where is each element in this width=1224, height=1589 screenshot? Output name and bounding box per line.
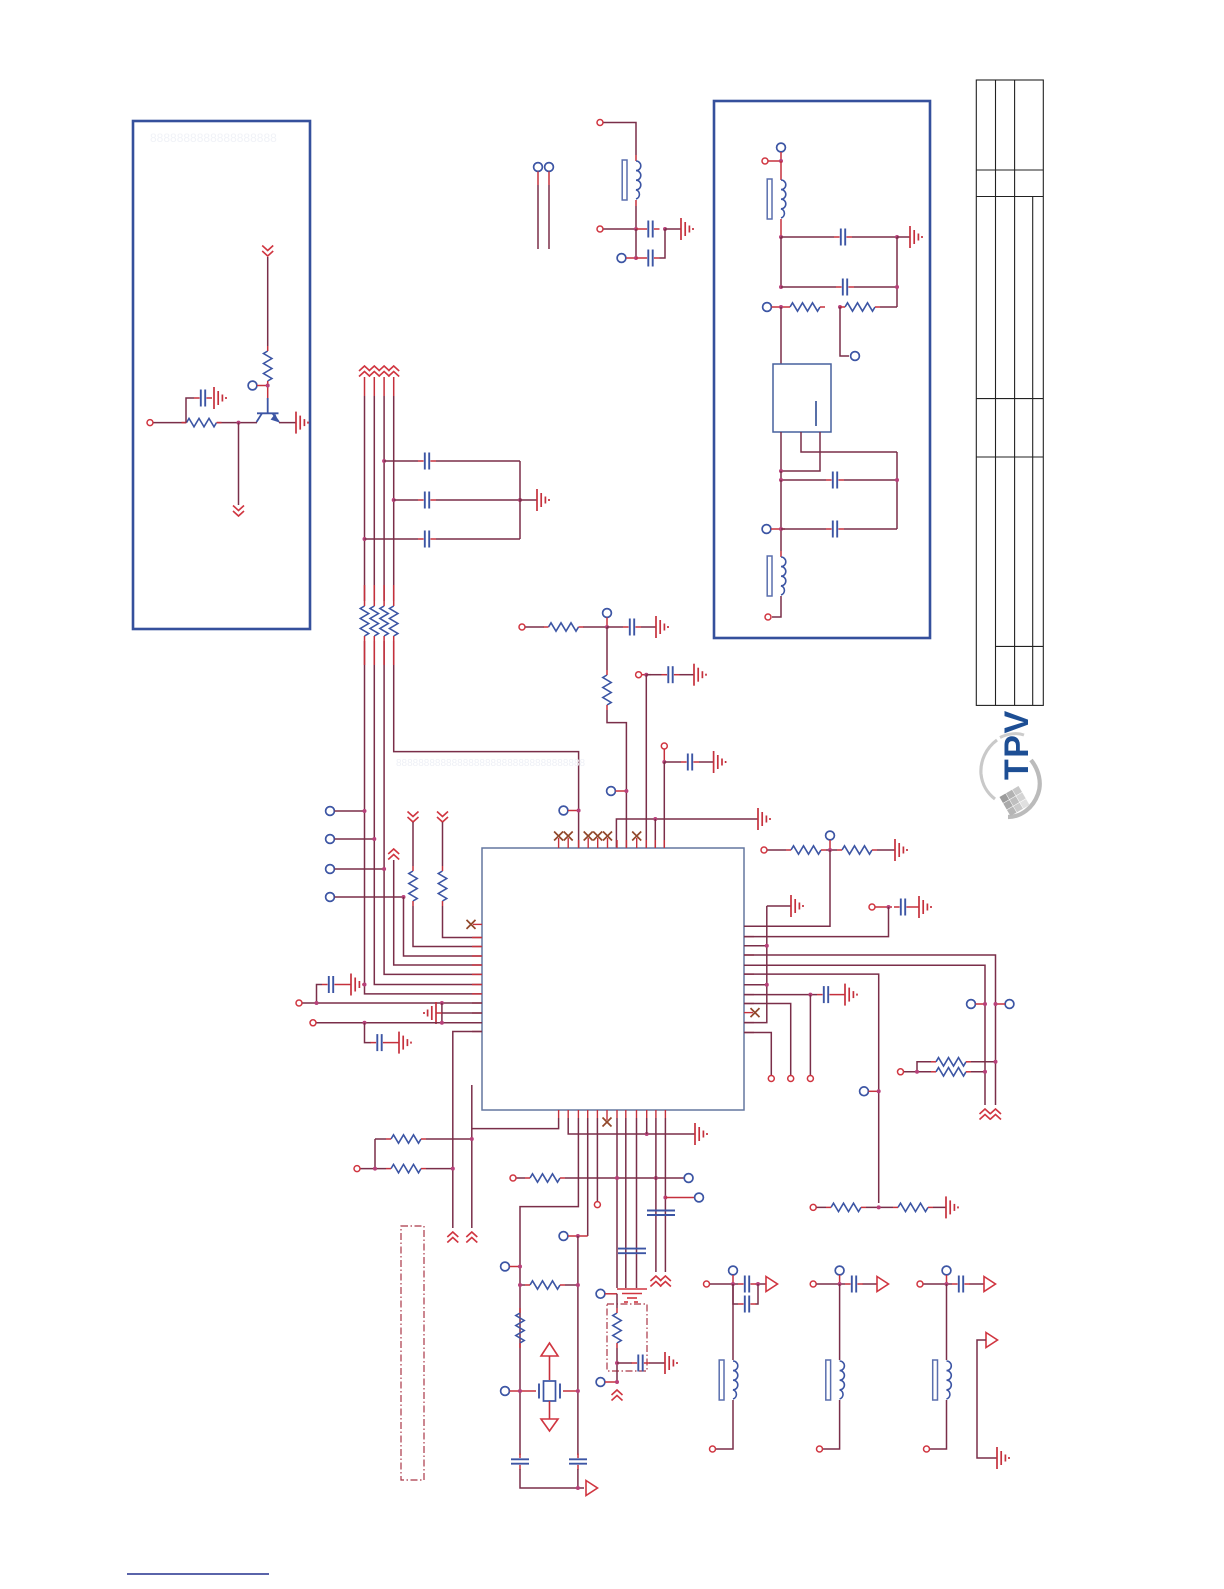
power chevron vA <box>447 1232 458 1243</box>
resistor r-top B <box>837 846 877 854</box>
wire r-cap row <box>876 906 893 908</box>
node dot v441 top <box>440 1001 444 1005</box>
transistor Q1 <box>257 398 280 422</box>
node dot base row <box>237 421 241 425</box>
node dot b2 a <box>779 235 783 239</box>
capacitor dec2 <box>681 754 699 771</box>
capacitor C (filter upper) <box>642 221 660 238</box>
wire port2 <box>335 838 375 840</box>
wire pin625 <box>625 1118 627 1288</box>
wire port4 <box>335 896 404 898</box>
resistor twin top <box>931 1058 971 1066</box>
node dot twin t <box>994 1060 998 1064</box>
node dot xtal leg r <box>576 1389 580 1393</box>
inductor blk3 <box>933 1360 952 1400</box>
resistor base <box>182 418 222 426</box>
bottom-left sheet border line <box>127 1573 269 1575</box>
capacitor C (box2 r2) <box>836 279 854 296</box>
port divider row <box>810 1204 816 1210</box>
wire dec2 gnd <box>699 761 714 763</box>
wire row H <box>744 994 817 996</box>
power chevron v665 <box>660 1276 671 1287</box>
ground right cap <box>919 896 931 918</box>
wire blk3 out <box>930 1400 947 1449</box>
node dot blk3 <box>945 1282 949 1286</box>
wire port to node <box>604 228 637 230</box>
shield box dash-dot left <box>401 1226 424 1480</box>
ground divider <box>946 1196 958 1218</box>
wire pin665 <box>664 1118 666 1272</box>
power chevron afc <box>612 1390 623 1401</box>
node dot blk1 b <box>756 1282 760 1286</box>
resistor R (box2 right) <box>840 303 880 311</box>
power chevron left res B <box>437 812 448 823</box>
node dot xtal out <box>576 1486 580 1490</box>
wire blk2 out <box>823 1400 840 1449</box>
ground bus caps <box>537 489 549 511</box>
wire bus red segments <box>365 585 394 665</box>
red pin stubs top <box>579 840 665 848</box>
inductor L (box2 top) <box>780 161 782 180</box>
wire left res B <box>443 822 483 938</box>
node dot bus1 cap3 <box>363 537 367 541</box>
node dot b2 gnd <box>895 235 899 239</box>
capacitor C (bus r1) <box>418 453 436 470</box>
node dot divider <box>877 1205 881 1209</box>
power chevron v655 <box>650 1276 661 1287</box>
ground dec1 <box>694 664 706 686</box>
wire port to node <box>769 160 782 162</box>
no-connect X top 2 <box>564 832 573 841</box>
wire node to ground <box>897 236 910 238</box>
wire input row <box>154 422 297 424</box>
node dot bus gnd <box>518 498 522 502</box>
node dot dec2 <box>662 760 666 764</box>
resistor divider B <box>893 1203 933 1211</box>
no-connect X top 5 <box>603 832 612 841</box>
wire VT tap <box>616 790 627 792</box>
wire res to rail <box>880 306 897 308</box>
node dot bus tie1 <box>765 944 769 948</box>
capacitor dec1 <box>662 666 680 683</box>
port line4 <box>326 893 335 902</box>
wire filter to cap <box>636 228 642 230</box>
port osc row <box>510 1175 516 1181</box>
inductor blk2 <box>826 1360 845 1400</box>
wire bus4 <box>393 377 395 396</box>
no-connect X bottom <box>603 1118 612 1127</box>
resistor left B <box>438 866 446 906</box>
wire to ground <box>665 228 681 230</box>
signal triangle blk3 <box>984 1277 996 1292</box>
port dec1 <box>636 672 642 678</box>
terminal circle I <box>788 1076 794 1082</box>
wire port earth <box>605 1293 617 1295</box>
wire dec1 <box>642 674 651 676</box>
port box2 top <box>777 143 786 152</box>
wire cap branch <box>317 985 323 1004</box>
node dot pin665 tap <box>663 1196 667 1200</box>
IC left no-connect stub <box>473 923 482 925</box>
svg-text:8888888888888888888: 8888888888888888888 <box>150 131 277 145</box>
wire F tap <box>869 1090 879 1092</box>
signal triangle blk1 <box>766 1277 778 1292</box>
port bus4 tap <box>559 806 568 815</box>
wire dec1 drop <box>645 675 647 848</box>
crystal Y1 <box>520 1381 578 1401</box>
wire rail into IC2 <box>780 307 782 364</box>
no-connect X top 4 <box>593 832 602 841</box>
node dot afc2 <box>615 1380 619 1384</box>
no-connect X left <box>467 920 476 929</box>
wire bus pin ties <box>744 946 767 985</box>
capacitor right <box>894 899 912 916</box>
node dot in2 <box>363 1021 367 1025</box>
power chevron VD pin <box>388 849 399 860</box>
node dot bus3 cap1 <box>382 459 386 463</box>
port blk2 in <box>810 1281 816 1287</box>
capacitor VT <box>623 619 641 636</box>
wire H drop <box>809 995 811 1075</box>
port right pair A <box>967 1000 976 1009</box>
signal triangle xtal out <box>586 1481 598 1496</box>
frame box upper-right block <box>714 101 930 638</box>
title block table <box>976 80 1043 705</box>
ground r-top <box>895 839 907 861</box>
node dot xtal l1 <box>518 1265 522 1269</box>
node dot res row r <box>576 1283 580 1287</box>
wire left row last <box>453 1032 482 1229</box>
resistor divider A <box>826 1203 866 1211</box>
node dot xtal tap <box>576 1234 580 1238</box>
node dot VT tap <box>624 789 628 793</box>
wire H gnd <box>835 994 845 996</box>
port r-top node <box>826 831 835 840</box>
ground right bus <box>791 895 803 917</box>
capacitor C (box2 r3) <box>826 472 844 489</box>
node dot bracket right <box>451 1167 455 1171</box>
port pin665 tap <box>695 1193 704 1202</box>
wire VT row <box>526 626 608 628</box>
wire osc row <box>517 1177 685 1179</box>
wire cap branch 2 <box>365 1023 372 1043</box>
resistor left A <box>409 866 417 906</box>
wire left res A <box>413 822 482 947</box>
no-connect X top 1 <box>554 832 563 841</box>
wire row F <box>744 974 879 1203</box>
node dot F tap <box>877 1089 881 1093</box>
node dot b2 h <box>895 478 899 482</box>
node dot gnd row <box>653 817 657 821</box>
earth ground symbol <box>617 1289 647 1302</box>
wire port to node2 <box>626 257 636 259</box>
ground filter <box>681 218 693 240</box>
port VT node <box>603 609 612 618</box>
port blk1 out <box>710 1446 716 1452</box>
TPV logo <box>981 709 1040 817</box>
inductor L (box2 bottom) <box>780 551 782 557</box>
wire bus2 <box>373 377 375 396</box>
capacitor left dec <box>322 976 340 993</box>
wire r-cap drop to pin <box>744 907 889 937</box>
capacitor blk3 <box>952 1276 970 1293</box>
node dot H <box>808 993 812 997</box>
terminal circle H <box>807 1076 813 1082</box>
wire cap2 to gnd <box>389 1042 400 1044</box>
wire v441 <box>441 1003 443 1023</box>
port bus1 <box>326 807 335 816</box>
wire r-top stem <box>829 840 831 850</box>
resistor r-top A <box>786 846 826 854</box>
wire VT to cap <box>607 626 623 628</box>
wire right rail 2 <box>896 452 898 529</box>
node dot bus1 on row <box>363 983 367 987</box>
wire branch to port <box>840 307 849 356</box>
node dot bracket left <box>373 1167 377 1171</box>
port left in2 <box>310 1020 316 1026</box>
wire blk3 stem <box>946 1275 948 1284</box>
node dot port4 <box>402 895 406 899</box>
svg-text:888888888888888888888888888888: 8888888888888888888888888888888888 <box>396 758 586 769</box>
wire node down <box>635 229 637 258</box>
node dot blk1 <box>731 1282 735 1286</box>
wire base to ground arrow <box>238 423 240 505</box>
wire IC2 bottom pins <box>781 432 897 471</box>
IC right no-connect stub <box>744 1012 753 1014</box>
ground triangle down <box>541 1401 558 1431</box>
node dot filter <box>634 227 638 231</box>
resistor bus2 <box>370 601 378 641</box>
node dot collector <box>266 384 270 388</box>
no-connect X top 3 <box>584 832 593 841</box>
capacitor C (bus r3) <box>418 531 436 548</box>
node dot osc tie1 <box>615 1176 619 1180</box>
port filter in <box>597 120 603 126</box>
port left in1 <box>296 1000 302 1006</box>
port dec2 <box>661 743 667 749</box>
wire divider row <box>817 1206 947 1208</box>
resistor R (box2 left) <box>785 303 825 311</box>
node dot res row l <box>518 1283 522 1287</box>
power triangle up <box>541 1343 558 1380</box>
wire pin636 <box>636 1118 638 1288</box>
capacitor xtal right <box>569 1454 587 1470</box>
port box2 left low <box>762 525 771 534</box>
port blk1 top <box>729 1266 738 1275</box>
node dot twin b <box>983 1070 987 1074</box>
wire cap to gnd <box>340 984 351 986</box>
port AGC <box>851 352 860 361</box>
wire blk2 row <box>817 1283 878 1285</box>
resistor twin bottom <box>931 1068 971 1076</box>
wire long row E <box>744 965 985 1105</box>
wire right gnd bus <box>744 906 791 1023</box>
wire pin617 <box>616 1118 618 1288</box>
wire stub B <box>548 172 550 186</box>
wire pin587 <box>587 1118 589 1236</box>
resistor VT2 <box>603 670 611 710</box>
wire twin res <box>904 1062 996 1072</box>
resistor osc row <box>525 1174 565 1182</box>
ground left row13 <box>424 1002 436 1024</box>
node dot port2 <box>372 837 376 841</box>
node dot VT <box>605 625 609 629</box>
power chevron down (box1 top) <box>262 246 273 257</box>
node dot osc tie2 <box>654 1176 658 1180</box>
node dot b2 b <box>779 285 783 289</box>
wire cap join rail <box>519 461 521 539</box>
wire cap row 1 <box>384 460 520 462</box>
node dot b2 g <box>779 478 783 482</box>
wire cap row 2 <box>394 499 520 501</box>
ground row above IC <box>758 808 770 830</box>
frame box upper-left block <box>133 121 310 629</box>
node dot port3 <box>382 867 386 871</box>
wire tap <box>568 810 579 812</box>
port blk2 top <box>835 1266 844 1275</box>
port earth <box>596 1289 605 1298</box>
node dot cap right <box>663 227 667 231</box>
mixer IC2 (box2) <box>773 364 831 432</box>
resistor afc <box>613 1308 621 1348</box>
wire long row D <box>744 955 996 1105</box>
wire cap row 3 <box>781 471 897 480</box>
node dot bracket top <box>470 1137 474 1141</box>
signal triangle fr <box>986 1333 998 1348</box>
node dot pairA <box>983 1002 987 1006</box>
node dot xtal leg l <box>518 1389 522 1393</box>
resistor bracket top <box>386 1135 426 1143</box>
capacitor blk1 a <box>738 1276 756 1293</box>
wire dec1 to cap <box>646 674 661 676</box>
port blk3 in <box>917 1281 923 1287</box>
capacitor bypass <box>194 390 212 407</box>
wire left rail down <box>780 237 782 287</box>
capacitor H <box>817 986 835 1003</box>
node dot bus4 cap2 <box>392 498 396 502</box>
port bracket <box>354 1166 360 1172</box>
wire bracket <box>361 1139 472 1169</box>
wire blk1 drop <box>732 1284 734 1360</box>
port VT tap <box>607 787 616 796</box>
port box2 top left <box>762 158 768 164</box>
power chevron bus2 <box>369 366 380 377</box>
wire pin646 <box>646 1118 648 1134</box>
port VT <box>519 624 525 630</box>
node dot port1 <box>363 809 367 813</box>
red pin stubs left <box>472 938 482 1032</box>
ground (bypass cap) <box>214 387 226 409</box>
wire xtal bottom loop <box>520 1469 584 1488</box>
capacitor C (bus r2) <box>418 492 436 509</box>
wire left in2 row <box>317 1022 483 1024</box>
resistor xtal row <box>525 1281 565 1289</box>
capacitor C (box2 r1) <box>834 229 852 246</box>
wire pin655 <box>655 1118 657 1272</box>
wire dec2 to cap <box>664 761 681 763</box>
capacitor C (filter lower) <box>642 250 660 267</box>
port bus3 <box>326 865 335 874</box>
wire VD pin <box>394 860 482 965</box>
wire right rail <box>896 237 898 307</box>
node dot bus tie2 <box>765 983 769 987</box>
node dot filter2 <box>634 256 638 260</box>
wire cap row 3 <box>365 538 521 540</box>
terminal circle L <box>768 1076 774 1082</box>
wire blk1 bracket <box>733 1284 758 1304</box>
wire pairA <box>976 1003 986 1005</box>
wire crystal feed <box>520 1118 578 1455</box>
node dot blk2 <box>838 1282 842 1286</box>
node dot b2 f <box>779 469 783 473</box>
wire port tie <box>510 1266 521 1268</box>
wire cap to ground <box>641 626 656 628</box>
inductor L1 <box>635 155 637 161</box>
wire dec2 stem <box>663 750 665 763</box>
power chevron bus1 <box>359 366 370 377</box>
wire port to rail <box>771 528 785 530</box>
wire VT stem <box>606 618 608 628</box>
port input <box>147 420 153 426</box>
node dot b2 e <box>838 305 842 309</box>
wire blk1 row <box>710 1283 766 1285</box>
wire bus3 <box>383 377 385 396</box>
wire r-top row <box>768 849 896 851</box>
port osc row right <box>684 1174 693 1183</box>
port blk2 out <box>817 1446 823 1452</box>
resistor bus3 <box>380 601 388 641</box>
port box2 left mid <box>763 303 772 312</box>
wire cap row 1 <box>781 236 897 238</box>
wire inductor to node <box>635 206 637 229</box>
ground afc <box>665 1352 677 1374</box>
port stub B <box>545 163 554 172</box>
port collector node <box>248 381 257 390</box>
svg-text:TPV: TPV <box>998 709 1036 780</box>
ground dec2 <box>714 751 726 773</box>
port blk3 out <box>924 1446 930 1452</box>
port xtal tap <box>559 1232 568 1241</box>
wire afc res <box>616 1294 618 1382</box>
wire blk3 drop <box>946 1284 948 1360</box>
power chevron bus3 <box>379 366 390 377</box>
wire port stem <box>780 152 782 161</box>
wire port4 drop <box>404 897 483 956</box>
wire port to rail <box>772 306 786 308</box>
wire stub A <box>537 172 539 186</box>
wire bottom gnd row <box>568 1118 695 1134</box>
wire blk3 row <box>924 1283 985 1285</box>
port right pair B <box>1005 1000 1014 1009</box>
capacitor C (box2 r4) <box>826 521 844 538</box>
wire bus1 <box>364 377 366 396</box>
wire r-cap gnd <box>912 906 919 908</box>
node dot b2 top <box>779 159 783 163</box>
node dot in2 v441 <box>440 1021 444 1025</box>
wire pin665 tap <box>665 1197 694 1199</box>
port right top <box>761 847 767 853</box>
IC top pin stubs <box>559 838 637 848</box>
ground H <box>845 984 857 1006</box>
node dot afc <box>615 1361 619 1365</box>
capacitor left dec2 <box>371 1034 389 1051</box>
capacitor blk2 <box>845 1276 863 1293</box>
port stub A <box>534 163 543 172</box>
red pin stubs bottom <box>559 1110 666 1118</box>
power chevron vE <box>980 1109 991 1120</box>
wire afc cap row <box>617 1362 665 1364</box>
wire afc port <box>605 1381 617 1383</box>
